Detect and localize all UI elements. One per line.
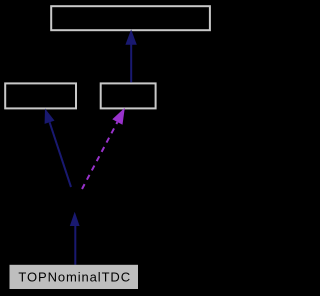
inheritance arrow middle-right box to top box [125, 29, 136, 82]
node box middle-right (label hidden) [101, 83, 156, 108]
node box middle-left (label hidden) [5, 83, 76, 108]
svg-text:TOPNominalTDC: TOPNominalTDC [18, 269, 131, 284]
usage arrow (dashed) hidden node to middle-right box [82, 108, 125, 189]
node box top (label hidden) [51, 6, 210, 30]
inheritance arrow TOPNominalTDC to hidden node [70, 212, 80, 265]
node box TOPNominalTDC (current node, grey fill) [10, 265, 139, 289]
inheritance arrow hidden node to middle-left box [45, 109, 71, 188]
